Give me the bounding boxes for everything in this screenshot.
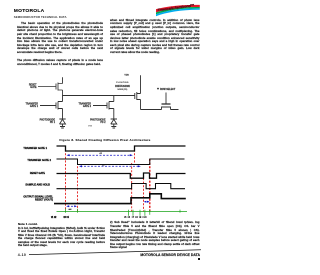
photodiode PD1 (59, 119, 65, 128)
svg-text:GATE 2: GATE 2 (83, 105, 92, 108)
row labels (23, 146, 53, 202)
blue arrow t1 (68, 154, 131, 156)
red cursor D (149, 159, 151, 212)
green tick B (77, 209, 79, 213)
green tick c4 (144, 210, 146, 216)
transistor M1 reset (38, 83, 63, 96)
svg-text:GATE: GATE (30, 86, 37, 89)
left column paragraph 1 (17, 22, 103, 54)
blue timing arrows (68, 155, 150, 206)
waveform row5 (54, 194, 186, 204)
note heading right / caption figure 9 (124, 216, 147, 219)
svg-text:RESET (VOUT): RESET (VOUT) (35, 197, 53, 201)
svg-text:t1 t2: t1 t2 (51, 215, 57, 219)
red cursor A (65, 146, 67, 212)
red cursor C0 (134, 146, 136, 164)
svg-text:VDD: VDD (124, 75, 129, 77)
svg-text:t12: t12 (100, 152, 103, 155)
svg-text:TRANSFER GATE 2: TRANSFER GATE 2 (27, 158, 51, 162)
red cursor C2 (143, 178, 145, 212)
note right paragraph (110, 221, 200, 250)
waveform row3 (57, 173, 186, 178)
waveform row2 (57, 159, 185, 165)
header MOTOROLA (14, 9, 45, 14)
svg-text:RESET GATE: RESET GATE (30, 172, 46, 175)
blue arrow t3 (68, 205, 76, 207)
transistor TX2 transfer gate 2 (93, 96, 114, 120)
note heading left (18, 222, 38, 226)
green tick c3 (139, 210, 141, 216)
header subtitle (14, 15, 67, 19)
blue arrowheads (67, 154, 70, 156)
transistor M3 row select (horizontal) (162, 93, 179, 110)
left column paragraph 2 (17, 59, 103, 66)
svg-text:tAB: tAB (69, 208, 73, 211)
svg-text:VSS: VSS (88, 125, 93, 127)
footer dot (198, 258, 200, 260)
svg-text:NODE (FD): NODE (FD) (118, 89, 128, 91)
arrow time labels (69, 152, 105, 211)
red cursor B (77, 159, 79, 212)
node FD wire (63, 95, 135, 97)
green tick A (65, 209, 67, 213)
footer right (0, 253, 200, 257)
blue arrow t4 (145, 201, 150, 203)
label ROW SELECT (157, 88, 159, 90)
wire M1 drain to VDD (62, 77, 64, 83)
freescale rainbow watermark (154, 1, 204, 18)
footer left page number (18, 253, 26, 257)
svg-text:t3 t4: t3 t4 (64, 215, 70, 219)
svg-text:FLOATING: FLOATING (116, 81, 129, 84)
green tick d (149, 210, 151, 215)
waveforms (54, 146, 186, 204)
green axis (57, 209, 188, 216)
waveform row1 (57, 146, 186, 151)
green tick e (179, 210, 181, 213)
waveform row4 (57, 184, 186, 189)
photodiode PD2 (111, 119, 117, 128)
green tick c1 (128, 210, 130, 216)
red cursor C1 (131, 163, 133, 212)
svg-text:PD 2: PD 2 (100, 122, 106, 124)
axis time labels (51, 215, 69, 219)
transistor M2 source follower (135, 75, 162, 109)
svg-text:GATE 1: GATE 1 (30, 105, 39, 108)
svg-text:SAMPLE AND HOLD: SAMPLE AND HOLD (25, 183, 50, 187)
green tick c2 (132, 210, 134, 216)
transistor TX1 transfer gate 1 (40, 96, 63, 120)
note left paragraph (18, 227, 105, 248)
svg-text:ROW SELECT: ROW SELECT (160, 89, 176, 91)
svg-text:TRANSFER GATE 1: TRANSFER GATE 1 (23, 146, 47, 150)
red dashed cursors (66, 146, 150, 212)
svg-text:PD 1: PD 1 (50, 122, 56, 124)
right column paragraph (110, 19, 200, 55)
svg-text:DIFFUSION: DIFFUSION (115, 84, 130, 88)
blue arrow t2 (81, 165, 140, 167)
caption Figure 8 (0, 138, 210, 142)
footer separator line (slightly sloped like the scan) (0, 246, 213, 258)
junction dots (62, 95, 63, 96)
svg-text:t24: t24 (102, 163, 105, 166)
